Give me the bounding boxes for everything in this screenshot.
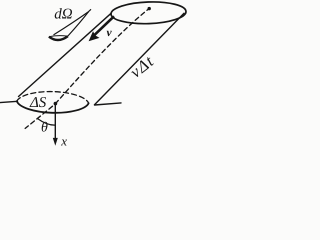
wire: left slant side of cylinder [19, 14, 111, 97]
svg-text:dΩ: dΩ [54, 7, 72, 23]
wire: right slant side of cylinder [95, 13, 185, 105]
node: dot at ΔS center [54, 102, 58, 106]
dashed axis extension below ΔS [25, 106, 52, 128]
top ellipse of cylinder [111, 1, 187, 25]
svg-text:x: x [60, 133, 67, 148]
surface element ΔS: bottom ellipse dashed back arc [17, 92, 89, 104]
wire: left horizontal plane line [0, 101, 18, 102]
svg-text:vΔt: vΔt [126, 51, 158, 81]
x axis arrow shaft [54, 105, 56, 140]
svg-text:θ: θ [41, 121, 48, 136]
solid angle dΩ cone base ellipse top arc [49, 36, 68, 37]
solid angle dΩ cone upper edge [54, 9, 92, 35]
svg-text:ΔS: ΔS [29, 95, 47, 111]
angle θ arc [38, 119, 56, 126]
x axis arrowhead [53, 138, 58, 146]
velocity v thick arrowhead [89, 31, 100, 41]
node: dot at top face center [148, 7, 151, 10]
dashed axis line from ΔS center to top face center [55, 9, 149, 104]
velocity v thick arrow shaft [94, 16, 114, 35]
solid angle dΩ cone base thick bottom arc [49, 36, 68, 40]
wire: right horizontal plane line [95, 103, 122, 105]
svg-text:v: v [107, 27, 113, 39]
surface element ΔS: bottom ellipse solid front arc [17, 101, 89, 113]
solid angle dΩ cone lower edge [68, 12, 89, 36]
